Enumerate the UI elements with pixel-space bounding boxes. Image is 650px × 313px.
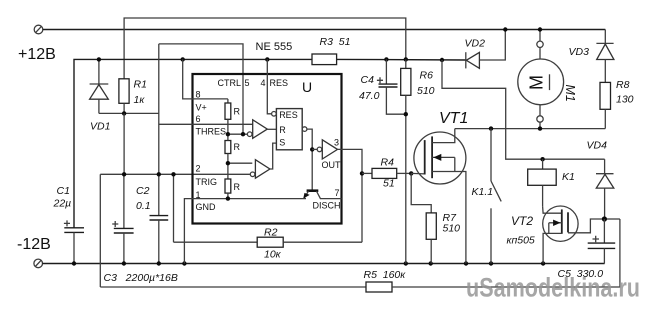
diode VD1: [90, 59, 109, 113]
capacitor C2 (0.1): [150, 174, 169, 263]
MOSFET VT2: [543, 206, 605, 264]
svg-text:R5 160к: R5 160к: [364, 269, 407, 281]
RES input bubble: [272, 112, 277, 117]
svg-text:22µ: 22µ: [53, 198, 72, 210]
svg-text:130: 130: [616, 94, 634, 106]
svg-text:3: 3: [334, 138, 339, 148]
junction dots on +12V rail: [97, 57, 101, 61]
RS flip-flop box: [276, 109, 302, 150]
wire: THRES pin 6 line: [159, 123, 253, 125]
wire: comparator 2 out to S input jog: [270, 143, 277, 169]
wire: top rail y=18: [124, 18, 406, 79]
svg-text:кп505: кп505: [507, 235, 535, 247]
svg-text:M: M: [527, 75, 547, 90]
svg-text:uSamodelkina.ru: uSamodelkina.ru: [466, 273, 640, 303]
svg-text:47.0: 47.0: [359, 90, 380, 102]
diode VD4: [596, 159, 614, 219]
wire: RS out to buffer and DISCH transistor: [307, 129, 312, 190]
svg-text:R: R: [234, 107, 241, 117]
output buffer triangle: [322, 140, 337, 159]
comparator 1 input bubble: [247, 132, 252, 137]
wire: divider top to node: [227, 119, 229, 134]
svg-text:0.1: 0.1: [136, 200, 151, 212]
wire: VD2 node to relay feed: [442, 60, 605, 159]
resistor R5 and bottom line: [100, 219, 620, 292]
svg-text:R1: R1: [134, 79, 147, 91]
svg-text:R8: R8: [616, 79, 630, 91]
junction dots on bottom rail: [72, 261, 76, 265]
relay coil K1: [528, 157, 557, 206]
capacitor C3 (2200µ): [112, 174, 133, 263]
svg-text:NE 555: NE 555: [256, 41, 293, 53]
wire: +12V rail left corner and vertical x=74: [74, 59, 312, 227]
capacitor C1: [64, 220, 84, 263]
wire: bottom rail (-12V) y=263.5: [42, 263, 604, 265]
svg-text:M1: M1: [563, 85, 577, 102]
capacitor C5: [588, 219, 616, 264]
svg-text:+12В: +12В: [18, 46, 56, 63]
svg-text:S: S: [279, 138, 285, 148]
svg-text:1к: 1к: [134, 94, 146, 106]
svg-text:R4: R4: [381, 157, 395, 169]
svg-text:RES: RES: [270, 78, 289, 88]
comparator 1 (threshold): [253, 120, 268, 139]
wire: pin 4 RES from rail: [267, 59, 271, 113]
transistor discharge collector to pin 7: [316, 191, 341, 199]
resistor R6: [401, 59, 411, 263]
svg-text:-12В: -12В: [17, 236, 51, 253]
svg-text:C4: C4: [361, 74, 375, 86]
internal divider resistor bottom: [225, 179, 231, 193]
junction dot R1 bottom: [122, 111, 126, 115]
transistor discharge emitter with arrow: [304, 191, 308, 198]
svg-text:THRES: THRES: [196, 127, 227, 137]
node VD4/C5/R5/gate junction: [602, 216, 607, 221]
svg-text:8: 8: [196, 90, 201, 100]
svg-text:R: R: [234, 142, 241, 152]
switch K1.1: [491, 129, 501, 264]
wire: comparator 1 out to R input: [267, 128, 276, 130]
wire: +12V terminal feed (y=29.5): [43, 29, 605, 31]
wire: VD2 anode to terminal feed: [479, 30, 505, 61]
svg-text:VD3: VD3: [569, 46, 590, 58]
svg-text:VD2: VD2: [465, 38, 486, 50]
wire: R4 to VT1 gate: [397, 172, 412, 174]
svg-text:7: 7: [335, 188, 340, 198]
svg-text:V+: V+: [196, 103, 207, 113]
svg-text:2: 2: [196, 164, 201, 174]
svg-text:VT1: VT1: [439, 110, 468, 127]
svg-text:6: 6: [196, 114, 201, 124]
resistor R1: [119, 79, 129, 114]
wire: GND line pin 1: [184, 199, 306, 264]
svg-text:K1.1: K1.1: [472, 186, 494, 198]
svg-text:R: R: [234, 182, 241, 192]
internal divider resistor middle: [225, 141, 231, 154]
wire: motor bottom / drain rail y=128.6: [455, 128, 606, 130]
output buffer input bubble: [317, 147, 322, 152]
transistor Q discharge: base bar: [307, 189, 319, 192]
resistor R2: [174, 237, 363, 247]
svg-text:DISCH: DISCH: [313, 201, 341, 211]
svg-text:5: 5: [245, 78, 250, 88]
svg-text:510: 510: [417, 85, 435, 97]
svg-text:C2: C2: [136, 185, 150, 197]
wire: OUT node to R4: [360, 171, 364, 175]
op-amp / IC U (NE555) body: [193, 74, 342, 224]
wire: divider node to comparator 1 with CTRL join: [228, 133, 247, 135]
svg-text:R2: R2: [264, 227, 278, 239]
wire: TRIG branch down to R5 line: [99, 174, 101, 287]
diode VD2: [466, 52, 480, 68]
wire: pin 8 V+ from rail: [183, 59, 228, 99]
svg-text:OUT: OUT: [322, 160, 342, 170]
capacitor C4: [377, 59, 406, 114]
wire: gate branch to R7: [411, 173, 431, 213]
svg-text:510: 510: [443, 223, 461, 235]
svg-text:CTRL: CTRL: [218, 78, 242, 88]
wire: divider middle leads: [227, 134, 229, 140]
internal divider resistor top: [227, 99, 229, 103]
svg-text:10к: 10к: [264, 249, 282, 261]
svg-text:VD4: VD4: [587, 140, 608, 152]
wire: branch x=173.5 TRIG to R2 line: [173, 174, 175, 242]
wire: VD1/R1 junction line y=113.4: [99, 112, 159, 114]
svg-text:VT2: VT2: [511, 214, 533, 228]
motor M1: [518, 30, 564, 129]
wire: R5 riser to VD4 node: [604, 218, 620, 220]
junction dots on TRIG line: [122, 172, 126, 176]
svg-text:U: U: [302, 79, 312, 95]
svg-text:VD1: VD1: [90, 121, 110, 133]
svg-text:4: 4: [261, 78, 266, 88]
comparator 2 (trigger): [255, 160, 270, 179]
RS output bubble: [302, 127, 307, 132]
svg-text:R3 51: R3 51: [320, 36, 351, 48]
wire: TRIG node line y=174.3: [100, 173, 250, 175]
resistor R7: [426, 213, 436, 239]
diode VD3: [596, 30, 614, 83]
comparator 2 input bubble (TRIG): [250, 172, 255, 177]
resistor R3 (in rail): [312, 54, 337, 65]
junction dots on terminal feed: [503, 27, 507, 31]
svg-text:R6: R6: [420, 70, 434, 82]
terminal +12V: [34, 25, 43, 34]
terminal -12V: [34, 259, 43, 268]
wire: CTRL loop x=158.8 vertical: [158, 44, 160, 174]
wire: OUT pin 3: [338, 149, 363, 242]
resistor R8: [600, 82, 611, 128]
wire: vertical x=124.1 from junction to TRIG line: [123, 113, 125, 174]
svg-text:TRIG: TRIG: [196, 177, 218, 187]
wire: divider bottom to GND line: [227, 193, 229, 199]
resistor R4: [372, 168, 397, 178]
MOSFET VT1: [414, 129, 466, 264]
svg-text:RES: RES: [279, 110, 298, 120]
svg-text:C1: C1: [57, 185, 70, 197]
svg-text:K1: K1: [562, 171, 575, 183]
wire: TRIG divider branch y=163.2: [228, 162, 252, 164]
svg-text:GND: GND: [196, 202, 217, 212]
wire: CTRL loop top y=43.9: [159, 44, 243, 134]
svg-text:51: 51: [383, 178, 395, 190]
svg-text:R: R: [279, 125, 286, 135]
wire: rail continues right of R3 to VD2: [337, 58, 466, 61]
svg-text:C3 2200µ*16В: C3 2200µ*16В: [104, 272, 178, 284]
